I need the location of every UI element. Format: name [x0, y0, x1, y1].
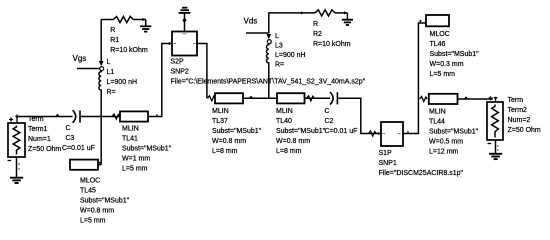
svg-text:L1: L1	[107, 69, 115, 76]
svg-text:R: R	[110, 27, 115, 34]
term Term2 minus mark	[488, 143, 492, 145]
svg-text:Vds: Vds	[244, 17, 258, 26]
svg-text:Subst="MSub1": Subst="MSub1"	[80, 198, 130, 205]
svg-text:MLIN: MLIN	[122, 126, 139, 133]
wire R1 to ground	[133, 19, 145, 21]
microstrip open stub MLOC TL45	[70, 160, 98, 170]
svg-text:Z=50 Ohm: Z=50 Ohm	[508, 127, 541, 134]
term Term2 body	[487, 102, 503, 140]
wire end arrow	[142, 18, 145, 21]
wire TL44 to Term2	[458, 98, 494, 100]
svg-text:W=1 mm: W=1 mm	[122, 156, 150, 163]
ground below Term2	[489, 154, 502, 159]
wire Term1 to ground stub	[16, 157, 18, 177]
svg-text:L: L	[275, 33, 279, 40]
inductor L1 pin arrow	[99, 61, 104, 66]
label C2	[325, 108, 358, 135]
svg-text:R=: R=	[275, 62, 284, 69]
pin 1 arrow S2P	[169, 42, 172, 45]
ground above S2P (inverted)	[179, 8, 191, 13]
wire end arrow	[301, 11, 304, 14]
wire vertex tick	[465, 97, 468, 99]
microstrip MLIN TL40	[277, 93, 305, 103]
term Term1 minus mark	[8, 160, 12, 162]
pin 2 mark S2P	[193, 43, 196, 45]
inductor L1 pin circle	[100, 67, 104, 71]
microstrip MLIN TL41	[120, 111, 148, 121]
pin tick TL45	[99, 162, 102, 165]
svg-text:Term1: Term1	[28, 126, 48, 133]
ground R1	[140, 26, 151, 31]
inductor L3 pin arrow	[266, 34, 271, 39]
svg-text:W=0.5 mm: W=0.5 mm	[429, 139, 463, 146]
pin 1 arrow S1P	[378, 132, 381, 135]
svg-text:Term: Term	[508, 97, 524, 104]
svg-text:SNP2: SNP2	[171, 69, 189, 76]
wire S2P pin2 down to TL37	[197, 44, 207, 99]
ground stub R2	[346, 13, 348, 19]
pin marks Term1 stub	[18, 164, 20, 169]
wire R1 branch vertical	[100, 20, 102, 62]
label TL40	[276, 108, 326, 155]
svg-text:Num=2: Num=2	[508, 117, 531, 124]
svg-text:SNP1: SNP1	[379, 160, 397, 167]
label R2	[313, 21, 351, 48]
svg-text:R1: R1	[110, 37, 119, 44]
pin ref mark S1P	[398, 133, 401, 135]
pin ref mark S2P	[183, 33, 187, 35]
wire squiggle TL44 pin1	[420, 97, 428, 102]
capacitor C2	[330, 92, 337, 105]
svg-text:C: C	[66, 125, 71, 132]
svg-text:TL41: TL41	[122, 136, 138, 143]
label L3	[275, 33, 306, 68]
s-parameter block S2P	[172, 32, 197, 56]
term Term1 body	[8, 123, 25, 157]
label TL37	[212, 108, 262, 155]
term Term1 pin marks	[9, 115, 17, 124]
ground below Term1	[10, 178, 23, 183]
svg-text:W=0.3 mm: W=0.3 mm	[430, 61, 464, 68]
term Term2 pin arrow	[493, 97, 497, 100]
svg-text:L=8 mm: L=8 mm	[276, 148, 302, 155]
term Term2 resistor zigzag	[492, 105, 499, 138]
svg-text:W=0.8 mm: W=0.8 mm	[212, 138, 246, 145]
svg-text:L=900 nH: L=900 nH	[275, 52, 306, 59]
svg-text:TL44: TL44	[429, 119, 445, 126]
microstrip MLIN TL37	[215, 93, 243, 103]
wire end arrow	[344, 11, 347, 14]
svg-text:MLOC: MLOC	[80, 178, 100, 185]
label R1	[110, 27, 148, 54]
svg-text:S2P: S2P	[171, 59, 185, 66]
svg-text:Num=1: Num=1	[28, 136, 51, 143]
svg-text:File="DISCM25ACIR8.s1p": File="DISCM25ACIR8.s1p"	[379, 170, 464, 177]
svg-text:L=8 mm: L=8 mm	[212, 148, 238, 155]
svg-text:W=0.8 mm: W=0.8 mm	[276, 138, 310, 145]
term Term1 pin arrow	[15, 116, 19, 119]
wire TL40 to C2	[305, 97, 331, 99]
label TL41	[122, 126, 172, 173]
inductor L1 coils	[99, 71, 101, 91]
resistor R1	[113, 16, 133, 22]
wire L3 to middle line	[268, 63, 270, 98]
svg-text:L=12 mm: L=12 mm	[429, 149, 459, 156]
svg-text:L: L	[107, 59, 111, 66]
svg-text:S1P: S1P	[379, 150, 393, 157]
label S1P	[379, 150, 464, 177]
svg-text:TL46: TL46	[430, 41, 446, 48]
term Term2 pin marks	[489, 96, 496, 102]
svg-text:L3: L3	[275, 43, 283, 50]
wire squiggle TL40 pin2	[307, 96, 315, 101]
wire Term1 to C3	[17, 116, 73, 118]
ground stub R1	[145, 20, 147, 26]
pin tick TL46	[419, 20, 422, 23]
wire vertex tick	[56, 115, 59, 117]
svg-text:C: C	[325, 108, 330, 115]
microstrip open stub MLOC TL46	[426, 15, 449, 26]
resistor R2	[315, 10, 335, 16]
wire L1 to main line and down to TL45	[100, 90, 102, 165]
wire Vds stub	[246, 32, 268, 34]
wire Vgs stub	[77, 68, 100, 70]
svg-text:C3: C3	[66, 135, 75, 142]
svg-text:TL37: TL37	[212, 118, 228, 125]
wire vertex tick	[250, 97, 253, 99]
s-parameter block S1P	[381, 122, 403, 146]
svg-text:C=0.01 uF: C=0.01 uF	[62, 145, 95, 152]
label C3	[62, 125, 95, 152]
svg-text:Subst="MSub1": Subst="MSub1"	[430, 51, 480, 58]
svg-text:MLIN: MLIN	[212, 108, 229, 115]
svg-text:R2: R2	[313, 31, 322, 38]
svg-text:MLIN: MLIN	[429, 109, 446, 116]
svg-text:W=0.8 mm: W=0.8 mm	[80, 208, 114, 215]
label TL46	[430, 31, 480, 78]
svg-text:Subst="MSub1": Subst="MSub1"	[212, 128, 262, 135]
pin marks Term2 stub	[497, 146, 499, 150]
pin 1 mark S1P	[383, 133, 386, 135]
svg-text:MLOC: MLOC	[430, 31, 450, 38]
inductor L3 coils	[266, 44, 268, 64]
svg-text:Z=50 Ohm: Z=50 Ohm	[28, 146, 61, 153]
svg-text:R: R	[313, 21, 318, 28]
wire C3 to TL41	[80, 116, 120, 118]
wire squiggle S1P pin1	[369, 131, 377, 136]
wire R1 horizontal lead	[101, 19, 113, 21]
svg-text:R=10 kOhm: R=10 kOhm	[110, 47, 148, 54]
svg-text:R=: R=	[107, 89, 116, 96]
svg-text:Term2: Term2	[508, 107, 528, 114]
label Term1	[28, 116, 61, 153]
wire squiggle TL37 pin1	[208, 96, 216, 101]
label S2P	[171, 59, 366, 86]
svg-text:L=5 mm: L=5 mm	[122, 166, 148, 173]
svg-text:L=5 mm: L=5 mm	[80, 218, 106, 225]
pin 1 mark S2P	[174, 43, 177, 45]
svg-text:C2: C2	[325, 118, 334, 125]
label TL45	[80, 178, 130, 225]
wire TL41 to S2P riser	[148, 44, 172, 117]
ground R2	[342, 20, 353, 25]
svg-text:R=10 kOhm: R=10 kOhm	[313, 41, 351, 48]
term Term1 resistor zigzag	[13, 126, 20, 155]
svg-text:L=900 nH: L=900 nH	[107, 79, 138, 86]
svg-text:L=5 mm: L=5 mm	[430, 71, 456, 78]
svg-text:Vgs: Vgs	[73, 54, 87, 63]
svg-text:C=0.01 uF: C=0.01 uF	[325, 128, 358, 135]
wire ground to S2P pin ref	[184, 13, 186, 32]
svg-text:Subst="MSub1": Subst="MSub1"	[429, 129, 479, 136]
wire C2 down to S1P	[337, 98, 381, 133]
svg-text:MLIN: MLIN	[276, 108, 293, 115]
wire Term2 to ground stub	[495, 140, 497, 153]
svg-text:TL45: TL45	[80, 188, 96, 195]
wire vertex tick	[407, 131, 409, 133]
wire TL37 to TL40	[243, 97, 277, 99]
microstrip MLIN TL44	[429, 94, 458, 104]
label L1	[107, 59, 138, 96]
svg-text:TL40: TL40	[276, 118, 292, 125]
wire squiggle TL41 pin1	[112, 114, 120, 119]
wire R2 to ground	[335, 12, 347, 14]
svg-text:Subst="MSub1": Subst="MSub1"	[122, 146, 172, 153]
svg-text:Subst="MSub1": Subst="MSub1"	[276, 128, 326, 135]
label TL44	[429, 109, 479, 156]
pin mark S2P ref	[182, 18, 186, 24]
wire vertex tick	[156, 114, 158, 116]
capacitor C3	[73, 110, 80, 123]
wire TL45 lead	[98, 164, 101, 166]
label Term2	[508, 97, 541, 134]
wire R2 branch	[269, 13, 315, 34]
inductor L3 pin circle	[267, 40, 271, 44]
wire S1P pin ref to riser	[403, 23, 426, 134]
